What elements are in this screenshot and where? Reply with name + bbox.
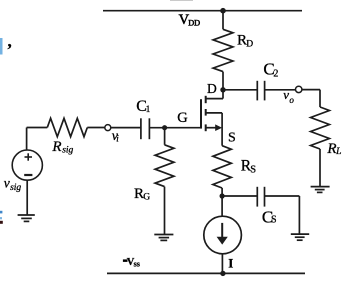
svg-text:2: 2 bbox=[273, 68, 278, 79]
svg-text:S: S bbox=[228, 131, 236, 146]
svg-text:1: 1 bbox=[146, 104, 151, 114]
svg-text:sig: sig bbox=[10, 183, 21, 193]
svg-text:R: R bbox=[326, 141, 336, 157]
svg-text:G: G bbox=[143, 193, 150, 203]
svg-text:S: S bbox=[271, 215, 277, 226]
svg-text:S: S bbox=[250, 164, 256, 175]
svg-text:,: , bbox=[8, 32, 12, 51]
svg-text:v: v bbox=[4, 176, 10, 191]
svg-text:v: v bbox=[283, 87, 289, 102]
svg-text:R: R bbox=[51, 139, 61, 155]
svg-text:I: I bbox=[228, 256, 233, 271]
svg-text:o: o bbox=[289, 95, 294, 105]
svg-text:sig: sig bbox=[62, 146, 73, 156]
svg-text:D: D bbox=[207, 81, 217, 96]
svg-text:G: G bbox=[177, 110, 188, 126]
svg-text:L: L bbox=[335, 147, 341, 157]
svg-text:ss: ss bbox=[134, 260, 140, 269]
svg-text:D: D bbox=[246, 40, 253, 50]
svg-text:DD: DD bbox=[188, 18, 200, 27]
